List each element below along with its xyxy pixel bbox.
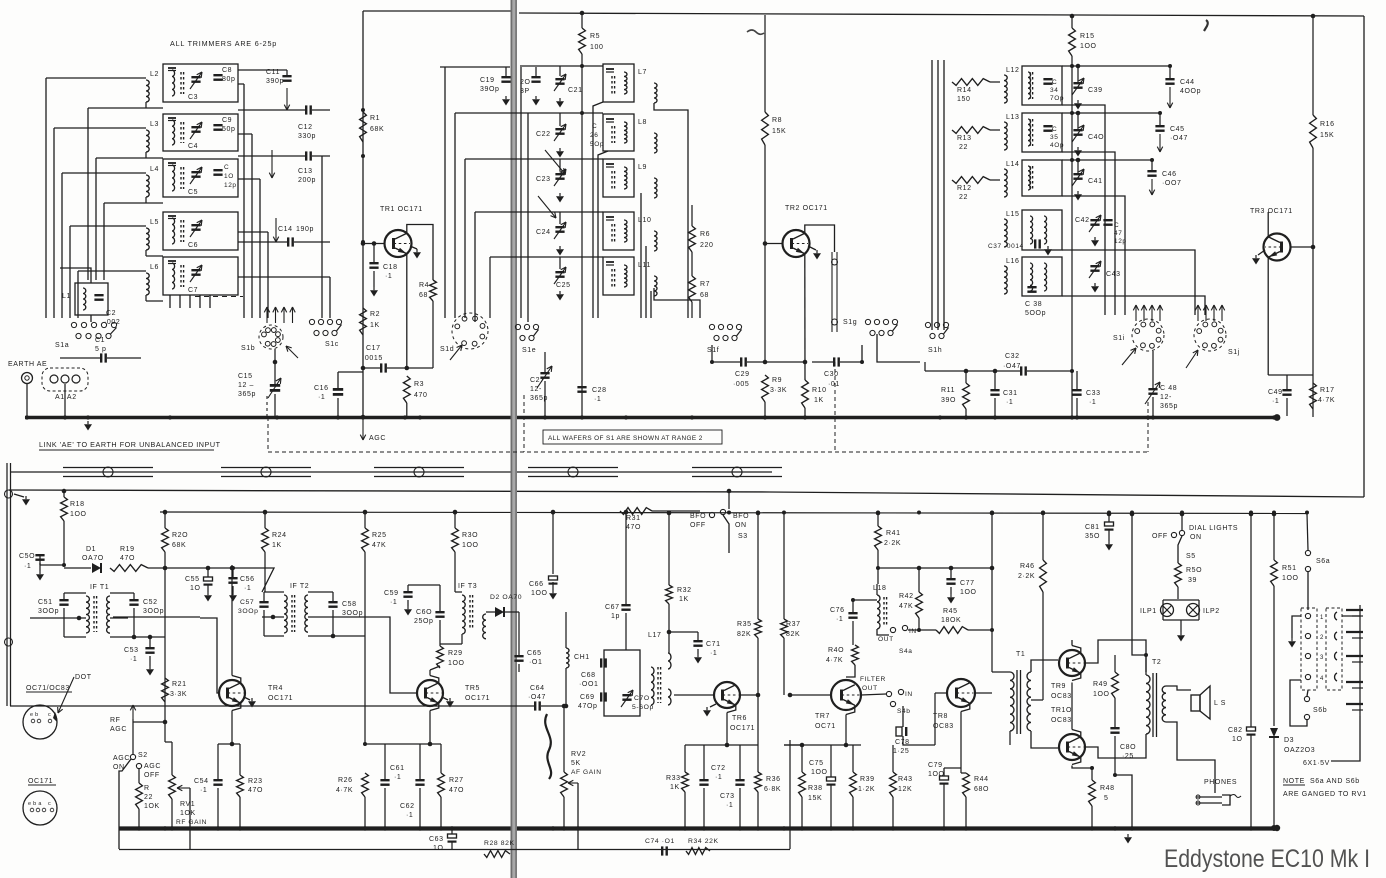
svg-text:L16: L16 (1006, 258, 1019, 265)
wire (30, 617, 79, 619)
wire (363, 10, 513, 12)
node junction (1168, 64, 1172, 68)
svg-text:·1: ·1 (1089, 399, 1096, 406)
wire (878, 567, 992, 569)
svg-text:C43: C43 (1106, 271, 1121, 278)
resistor R46 (1040, 560, 1047, 592)
resistor R20 (162, 528, 169, 552)
switch S1c (309, 319, 314, 324)
node junction (803, 415, 807, 419)
wire (238, 155, 305, 157)
svg-text:AGC: AGC (113, 755, 130, 762)
node junction (576, 826, 580, 830)
inductor L15 (1004, 219, 1007, 247)
wire (902, 706, 904, 727)
battery B1 (1359, 605, 1361, 716)
node junction (1130, 511, 1134, 515)
wire (95, 158, 97, 280)
svg-text:C49: C49 (1268, 389, 1283, 396)
svg-text:·1: ·1 (836, 616, 843, 623)
ground (149, 666, 151, 669)
svg-text:·1: ·1 (594, 396, 601, 403)
terminal A1 A2 (42, 368, 88, 391)
wire (1091, 768, 1093, 780)
svg-text:S1h: S1h (928, 347, 942, 354)
svg-text:RF GAIN: RF GAIN (176, 819, 207, 826)
resistor R11 (963, 383, 970, 409)
svg-text:C54: C54 (194, 778, 209, 785)
wire (1077, 66, 1079, 82)
switch S1b (259, 325, 283, 349)
wire (783, 513, 785, 619)
wire (1166, 722, 1215, 793)
svg-text:L8: L8 (638, 119, 647, 126)
wire (407, 585, 409, 591)
svg-text:S5: S5 (1186, 553, 1196, 560)
node junction (917, 511, 921, 515)
node junction (363, 826, 367, 830)
svg-text:15K: 15K (808, 795, 822, 802)
svg-text:L9: L9 (638, 164, 647, 171)
wire (238, 69, 287, 71)
wire (784, 744, 861, 746)
wire (559, 66, 561, 76)
switch S1d (452, 313, 488, 349)
svg-text:47K: 47K (899, 603, 913, 610)
svg-text:S4b: S4b (897, 708, 911, 715)
svg-text:R4O: R4O (828, 647, 844, 654)
wire (138, 769, 140, 783)
wire (179, 295, 181, 308)
wire (1287, 374, 1313, 376)
ground (559, 246, 561, 249)
trimmer C41 (1073, 173, 1082, 175)
svg-text:OC83: OC83 (933, 723, 954, 730)
resistor R32 (666, 585, 673, 604)
svg-text:1OO: 1OO (1093, 691, 1110, 698)
wire (1342, 615, 1360, 617)
wire (541, 705, 566, 707)
ground (1127, 834, 1129, 837)
svg-text:C3: C3 (188, 94, 198, 101)
ground (87, 421, 89, 424)
capacitor C44 (1165, 78, 1174, 80)
node junction (993, 415, 997, 419)
capacitor C52 (129, 599, 138, 601)
svg-text:C62: C62 (400, 803, 415, 810)
wire (565, 612, 567, 648)
svg-text:22: 22 (959, 144, 968, 151)
trimmer C22 (555, 128, 564, 130)
battery selector (1301, 608, 1317, 690)
svg-text:·1: ·1 (200, 787, 207, 794)
svg-text:LINK 'AE' TO EARTH FOR UNBALAN: LINK 'AE' TO EARTH FOR UNBALANCED INPUT (39, 440, 221, 449)
svg-text:R4: R4 (419, 282, 429, 289)
svg-text:CH1: CH1 (574, 654, 590, 661)
wire (1062, 112, 1160, 114)
wire (132, 719, 134, 754)
svg-text:1K: 1K (679, 596, 689, 603)
wire (1071, 16, 1073, 28)
svg-text:47O: 47O (449, 787, 464, 794)
node junction (667, 511, 671, 515)
wire (53, 128, 55, 318)
trimmer C42 (1090, 219, 1099, 221)
wire (149, 637, 151, 647)
svg-text:12K: 12K (898, 786, 912, 793)
wire (61, 173, 63, 318)
wire (960, 712, 962, 774)
node junction (763, 415, 767, 419)
svg-text:68K: 68K (172, 542, 186, 549)
wire (654, 103, 688, 318)
node junction (1113, 826, 1117, 830)
resistor R44 (963, 773, 970, 797)
svg-text:15K: 15K (1320, 132, 1334, 139)
node junction (63, 415, 67, 419)
wire (333, 635, 365, 637)
node junction (580, 64, 584, 68)
wire (145, 295, 147, 301)
wire (697, 632, 699, 640)
wire (511, 0, 518, 878)
ground (559, 193, 561, 196)
svg-text:C: C (1052, 126, 1057, 133)
wire (1180, 620, 1182, 632)
node junction (1041, 511, 1045, 515)
node junction (1151, 415, 1155, 419)
inductor CH1 (566, 648, 569, 668)
node screen (528, 467, 618, 469)
svg-text:DOT: DOT (75, 674, 92, 681)
resistor R39 (850, 772, 857, 797)
svg-text:C16: C16 (314, 385, 329, 392)
wire (363, 243, 385, 245)
wire (189, 295, 191, 308)
wire (1031, 660, 1058, 672)
wire (1072, 766, 1092, 769)
svg-text:R18: R18 (70, 501, 85, 508)
wire (232, 568, 234, 577)
potentiometer RV2 (561, 772, 568, 797)
svg-text:L1: L1 (62, 293, 71, 300)
svg-text:12-: 12- (530, 386, 542, 393)
wire (685, 744, 758, 746)
wire (559, 113, 561, 126)
inductor L5 (146, 228, 149, 250)
wire (861, 694, 886, 695)
wire (764, 402, 766, 416)
svg-text:1O: 1O (1232, 736, 1243, 743)
wire (6, 463, 8, 706)
wire (406, 254, 408, 368)
wire (757, 513, 759, 619)
node junction (25, 415, 29, 419)
svg-text:TR2 OC171: TR2 OC171 (785, 205, 828, 212)
svg-text:6·8K: 6·8K (764, 786, 781, 793)
svg-text:C74 ·O1: C74 ·O1 (645, 838, 675, 845)
tuned circuit box C4 (163, 114, 238, 151)
wire (486, 611, 495, 613)
wire (940, 370, 1020, 372)
node junction (439, 826, 443, 830)
wire (1163, 599, 1199, 601)
svg-text:C42: C42 (1075, 217, 1090, 224)
svg-text:AF GAIN: AF GAIN (571, 769, 602, 776)
svg-text:C45: C45 (1170, 126, 1185, 133)
node junction (163, 566, 167, 570)
svg-text:R44: R44 (974, 776, 989, 783)
svg-text:·1: ·1 (1272, 398, 1279, 405)
svg-text:TR3 OC171: TR3 OC171 (1250, 208, 1293, 215)
svg-text:R33: R33 (666, 775, 681, 782)
svg-text:C76: C76 (830, 607, 845, 614)
wire (451, 828, 453, 834)
svg-text:C67: C67 (605, 604, 620, 611)
wire (363, 367, 380, 369)
svg-text:AGC: AGC (369, 435, 386, 442)
resistor R2 (360, 308, 367, 335)
note wafers (543, 430, 722, 444)
svg-text:S6b: S6b (1313, 707, 1327, 714)
node junction (738, 826, 742, 830)
svg-text:S3: S3 (738, 533, 748, 540)
resistor R17 (1310, 383, 1317, 409)
svg-text:C: C (224, 164, 229, 171)
node junction (800, 826, 804, 830)
wire (26, 384, 28, 416)
svg-text:C30: C30 (824, 371, 839, 378)
wire (110, 617, 128, 619)
resistor R49 (1112, 672, 1119, 698)
svg-text:T2: T2 (1152, 659, 1161, 666)
svg-text:R31: R31 (626, 515, 641, 522)
svg-text:5Op: 5Op (590, 141, 604, 148)
node junction (418, 826, 422, 830)
ground (207, 592, 209, 595)
wire (545, 150, 565, 174)
wire (1071, 683, 1073, 730)
svg-text:R26: R26 (338, 777, 353, 784)
ground (505, 96, 507, 99)
svg-text:C14: C14 (278, 226, 293, 233)
svg-text:68O: 68O (974, 786, 989, 793)
node junction (917, 628, 921, 632)
detector box (604, 650, 640, 716)
svg-text:·1: ·1 (244, 585, 251, 592)
resistor R1 (360, 112, 367, 142)
wire (262, 616, 284, 618)
note scan speck (1204, 20, 1208, 31)
node junction (1249, 511, 1253, 515)
capacitor C46 (1147, 170, 1156, 172)
svg-text:R2: R2 (370, 311, 380, 318)
wire (407, 225, 433, 281)
wire (950, 568, 952, 578)
node junction (1180, 511, 1184, 515)
tuned circuit box C3 (163, 64, 238, 102)
wire (1312, 16, 1314, 115)
wire (711, 345, 713, 362)
tuned box L16 (1022, 257, 1062, 296)
wire (1114, 655, 1116, 672)
diode D3 (1270, 728, 1278, 737)
svg-text:OC171: OC171 (465, 695, 490, 702)
node junction (667, 630, 671, 634)
svg-text:·1: ·1 (130, 656, 137, 663)
svg-text:AGC: AGC (144, 763, 161, 770)
svg-text:OFF: OFF (1152, 533, 1168, 540)
capacitor C13 (305, 151, 307, 160)
svg-text:C15: C15 (238, 373, 253, 380)
svg-text:C72: C72 (711, 765, 726, 772)
svg-text:Eddystone EC10 Mk I: Eddystone EC10 Mk I (1164, 845, 1370, 873)
inductor L1 (75, 283, 108, 315)
resistor R40 (852, 645, 859, 665)
svg-text:5 p: 5 p (95, 346, 107, 353)
trimmer C70 (622, 694, 631, 696)
resistor R45 (936, 627, 968, 634)
wire (321, 156, 323, 318)
svg-text:R1: R1 (370, 115, 380, 122)
svg-text:·1: ·1 (1006, 399, 1013, 406)
svg-text:ALL TRIMMERS ARE 6-25p: ALL TRIMMERS ARE 6-25p (170, 39, 277, 48)
svg-text:R16: R16 (1320, 121, 1335, 128)
wire (934, 693, 936, 745)
ground (559, 148, 561, 151)
resistor R37 (781, 619, 788, 638)
lamp ILP1 (1161, 604, 1174, 617)
svg-text:L2: L2 (150, 71, 159, 78)
node junction (216, 826, 220, 830)
svg-text:R42: R42 (899, 593, 914, 600)
wire (994, 371, 996, 389)
svg-text:39O: 39O (941, 397, 956, 404)
wire (559, 212, 561, 224)
wire (674, 694, 714, 696)
svg-text:22: 22 (144, 794, 153, 801)
svg-text:82K: 82K (786, 631, 800, 638)
wavy screened lead (545, 714, 551, 779)
inductor L11 secondary (654, 276, 657, 296)
svg-text:1OO: 1OO (531, 590, 548, 597)
resistor R38 (799, 772, 806, 797)
wire (668, 513, 670, 585)
trimmer C4 (191, 126, 200, 128)
wire (1062, 65, 1170, 67)
wire (231, 711, 233, 745)
svg-text:47K: 47K (372, 542, 386, 549)
ground (1077, 147, 1079, 150)
svg-text:4·7K: 4·7K (1318, 397, 1335, 404)
svg-text:OC171: OC171 (28, 778, 53, 785)
ground (1292, 616, 1301, 638)
wire (271, 150, 273, 178)
resistor R10 (802, 380, 809, 408)
svg-text:68K: 68K (370, 126, 384, 133)
wire (267, 232, 269, 318)
tuned circuit box L7 (603, 64, 634, 102)
node AGC line (119, 849, 790, 851)
capacitor C14 (287, 237, 289, 246)
resistor R25 (362, 528, 369, 552)
svg-text:C77: C77 (960, 580, 975, 587)
wire (1076, 371, 1078, 389)
svg-text:S1i: S1i (1113, 335, 1125, 342)
svg-text:C65: C65 (527, 650, 542, 657)
svg-text:47O: 47O (248, 787, 263, 794)
svg-text:1OK: 1OK (144, 803, 160, 810)
wire (852, 600, 854, 612)
svg-text:S2: S2 (138, 752, 148, 759)
inductor L16 (1004, 266, 1007, 294)
resistor R36 (755, 772, 762, 792)
svg-text:1K: 1K (272, 542, 282, 549)
svg-text:·1: ·1 (385, 273, 392, 280)
svg-text:R38: R38 (808, 785, 823, 792)
node junction (1146, 415, 1150, 419)
wire (1267, 212, 1269, 237)
node junction (964, 826, 968, 830)
capacitor C (213, 169, 222, 171)
svg-text:1OO: 1OO (462, 542, 479, 549)
svg-text:5OOp: 5OOp (1025, 310, 1046, 317)
ground (559, 98, 561, 101)
node junction (137, 826, 141, 830)
node junction (275, 415, 279, 419)
svg-text:·1: ·1 (318, 394, 325, 401)
wire (134, 636, 165, 638)
wire (1166, 686, 1191, 690)
capacitor C48 (1148, 388, 1157, 390)
wire (63, 491, 65, 497)
wire (991, 513, 993, 672)
svg-text:C5O: C5O (19, 553, 35, 560)
svg-text:1O: 1O (224, 173, 234, 180)
svg-text:1·2K: 1·2K (858, 786, 875, 793)
node junction (1249, 826, 1253, 830)
svg-text:OC71/OC83: OC71/OC83 (26, 685, 70, 692)
svg-text:·25: ·25 (1122, 753, 1134, 760)
wire (1085, 640, 1146, 672)
wire (965, 371, 967, 383)
resistor R41 (875, 526, 882, 550)
wire (169, 295, 171, 308)
node junction (624, 511, 628, 515)
wire (199, 295, 201, 308)
node junction (562, 826, 566, 830)
svg-text:R48: R48 (1100, 785, 1115, 792)
switch S1f (709, 324, 714, 329)
wire (238, 241, 287, 243)
node junction (829, 826, 833, 830)
svg-text:100: 100 (590, 44, 603, 51)
svg-text:R37: R37 (786, 621, 801, 628)
svg-text:TR4: TR4 (268, 685, 283, 692)
svg-text:C29: C29 (735, 371, 750, 378)
wire (475, 211, 603, 213)
svg-text:·1: ·1 (394, 774, 401, 781)
resistor R29 (437, 646, 444, 668)
svg-text:ON: ON (735, 522, 747, 529)
wire (764, 15, 766, 112)
capacitor C33 (1072, 389, 1081, 391)
svg-text:1OK: 1OK (180, 810, 196, 817)
svg-text:ILP1: ILP1 (1140, 608, 1157, 615)
node junction (942, 826, 946, 830)
svg-text:R17: R17 (1320, 387, 1335, 394)
svg-text:OUT: OUT (878, 636, 894, 643)
